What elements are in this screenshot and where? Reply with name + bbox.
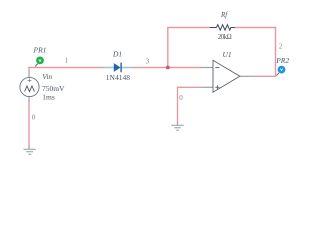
wire: feedback top horizontal left of Rf xyxy=(167,27,210,29)
wire: main input horizontal node 1 xyxy=(28,67,103,69)
probe PR2 tail xyxy=(276,73,279,76)
probe PR1 glyph xyxy=(39,59,41,61)
ground (source) symbol xyxy=(24,149,36,154)
svg-text:1N4148: 1N4148 xyxy=(106,73,130,82)
op-amp U1 pin plus xyxy=(202,86,213,88)
svg-text:1: 1 xyxy=(65,57,69,65)
probe PR2 body xyxy=(278,66,286,74)
op-amp U1 pin minus xyxy=(202,67,213,69)
probe PR1 body xyxy=(36,57,44,65)
svg-text:Vin: Vin xyxy=(42,72,52,81)
svg-text:D1: D1 xyxy=(112,50,122,59)
wire: feedback left vertical xyxy=(167,28,169,68)
svg-text:20kΩ: 20kΩ xyxy=(218,33,232,41)
diode D1 right lead xyxy=(121,67,133,69)
ground (op-amp plus) symbol xyxy=(171,125,184,130)
probe PR2 glyph xyxy=(280,69,282,71)
diode D1 left lead xyxy=(103,67,114,69)
wire: output horizontal node 2 xyxy=(251,75,276,77)
wire: source bottom vertical to ground xyxy=(28,100,30,147)
wire: feedback top horizontal right of Rf xyxy=(235,27,277,29)
source V1 plus mark xyxy=(28,79,32,83)
wire: source top vertical xyxy=(28,68,30,71)
op-amp U1 plus sign xyxy=(215,85,219,89)
source V1 triangle waveform glyph xyxy=(25,86,35,92)
source V1 body xyxy=(20,77,39,96)
source V1 pin top xyxy=(28,71,30,78)
op-amp U1 pin output xyxy=(240,75,252,77)
op-amp U1 minus sign xyxy=(215,67,219,69)
svg-text:0: 0 xyxy=(179,94,183,102)
svg-text:PR2: PR2 xyxy=(275,56,289,65)
source V1 pin bottom xyxy=(28,97,30,101)
resistor Rf leads xyxy=(210,27,235,29)
wire: feedback right vertical xyxy=(275,27,277,77)
svg-text:Rf: Rf xyxy=(220,11,228,19)
wire: plus input horizontal xyxy=(178,86,203,88)
wire: diode to opamp horizontal node 3 xyxy=(133,67,203,69)
svg-text:U1: U1 xyxy=(223,50,232,59)
diode D1 cathode bar xyxy=(120,63,122,73)
ground (op-amp plus) stub xyxy=(177,122,179,126)
svg-text:0: 0 xyxy=(32,114,36,122)
svg-text:1ms: 1ms xyxy=(42,92,55,101)
junction node 3 xyxy=(166,66,170,70)
probe PR1 tail xyxy=(35,64,38,67)
wire: plus input vertical to ground xyxy=(177,87,179,124)
svg-text:2: 2 xyxy=(279,43,283,51)
resistor Rf zigzag xyxy=(216,25,231,30)
svg-text:PR1: PR1 xyxy=(33,46,47,55)
ground (source) stub xyxy=(28,146,30,149)
diode D1 triangle xyxy=(114,63,121,72)
svg-text:3: 3 xyxy=(146,57,150,65)
op-amp U1 triangle xyxy=(213,60,240,92)
